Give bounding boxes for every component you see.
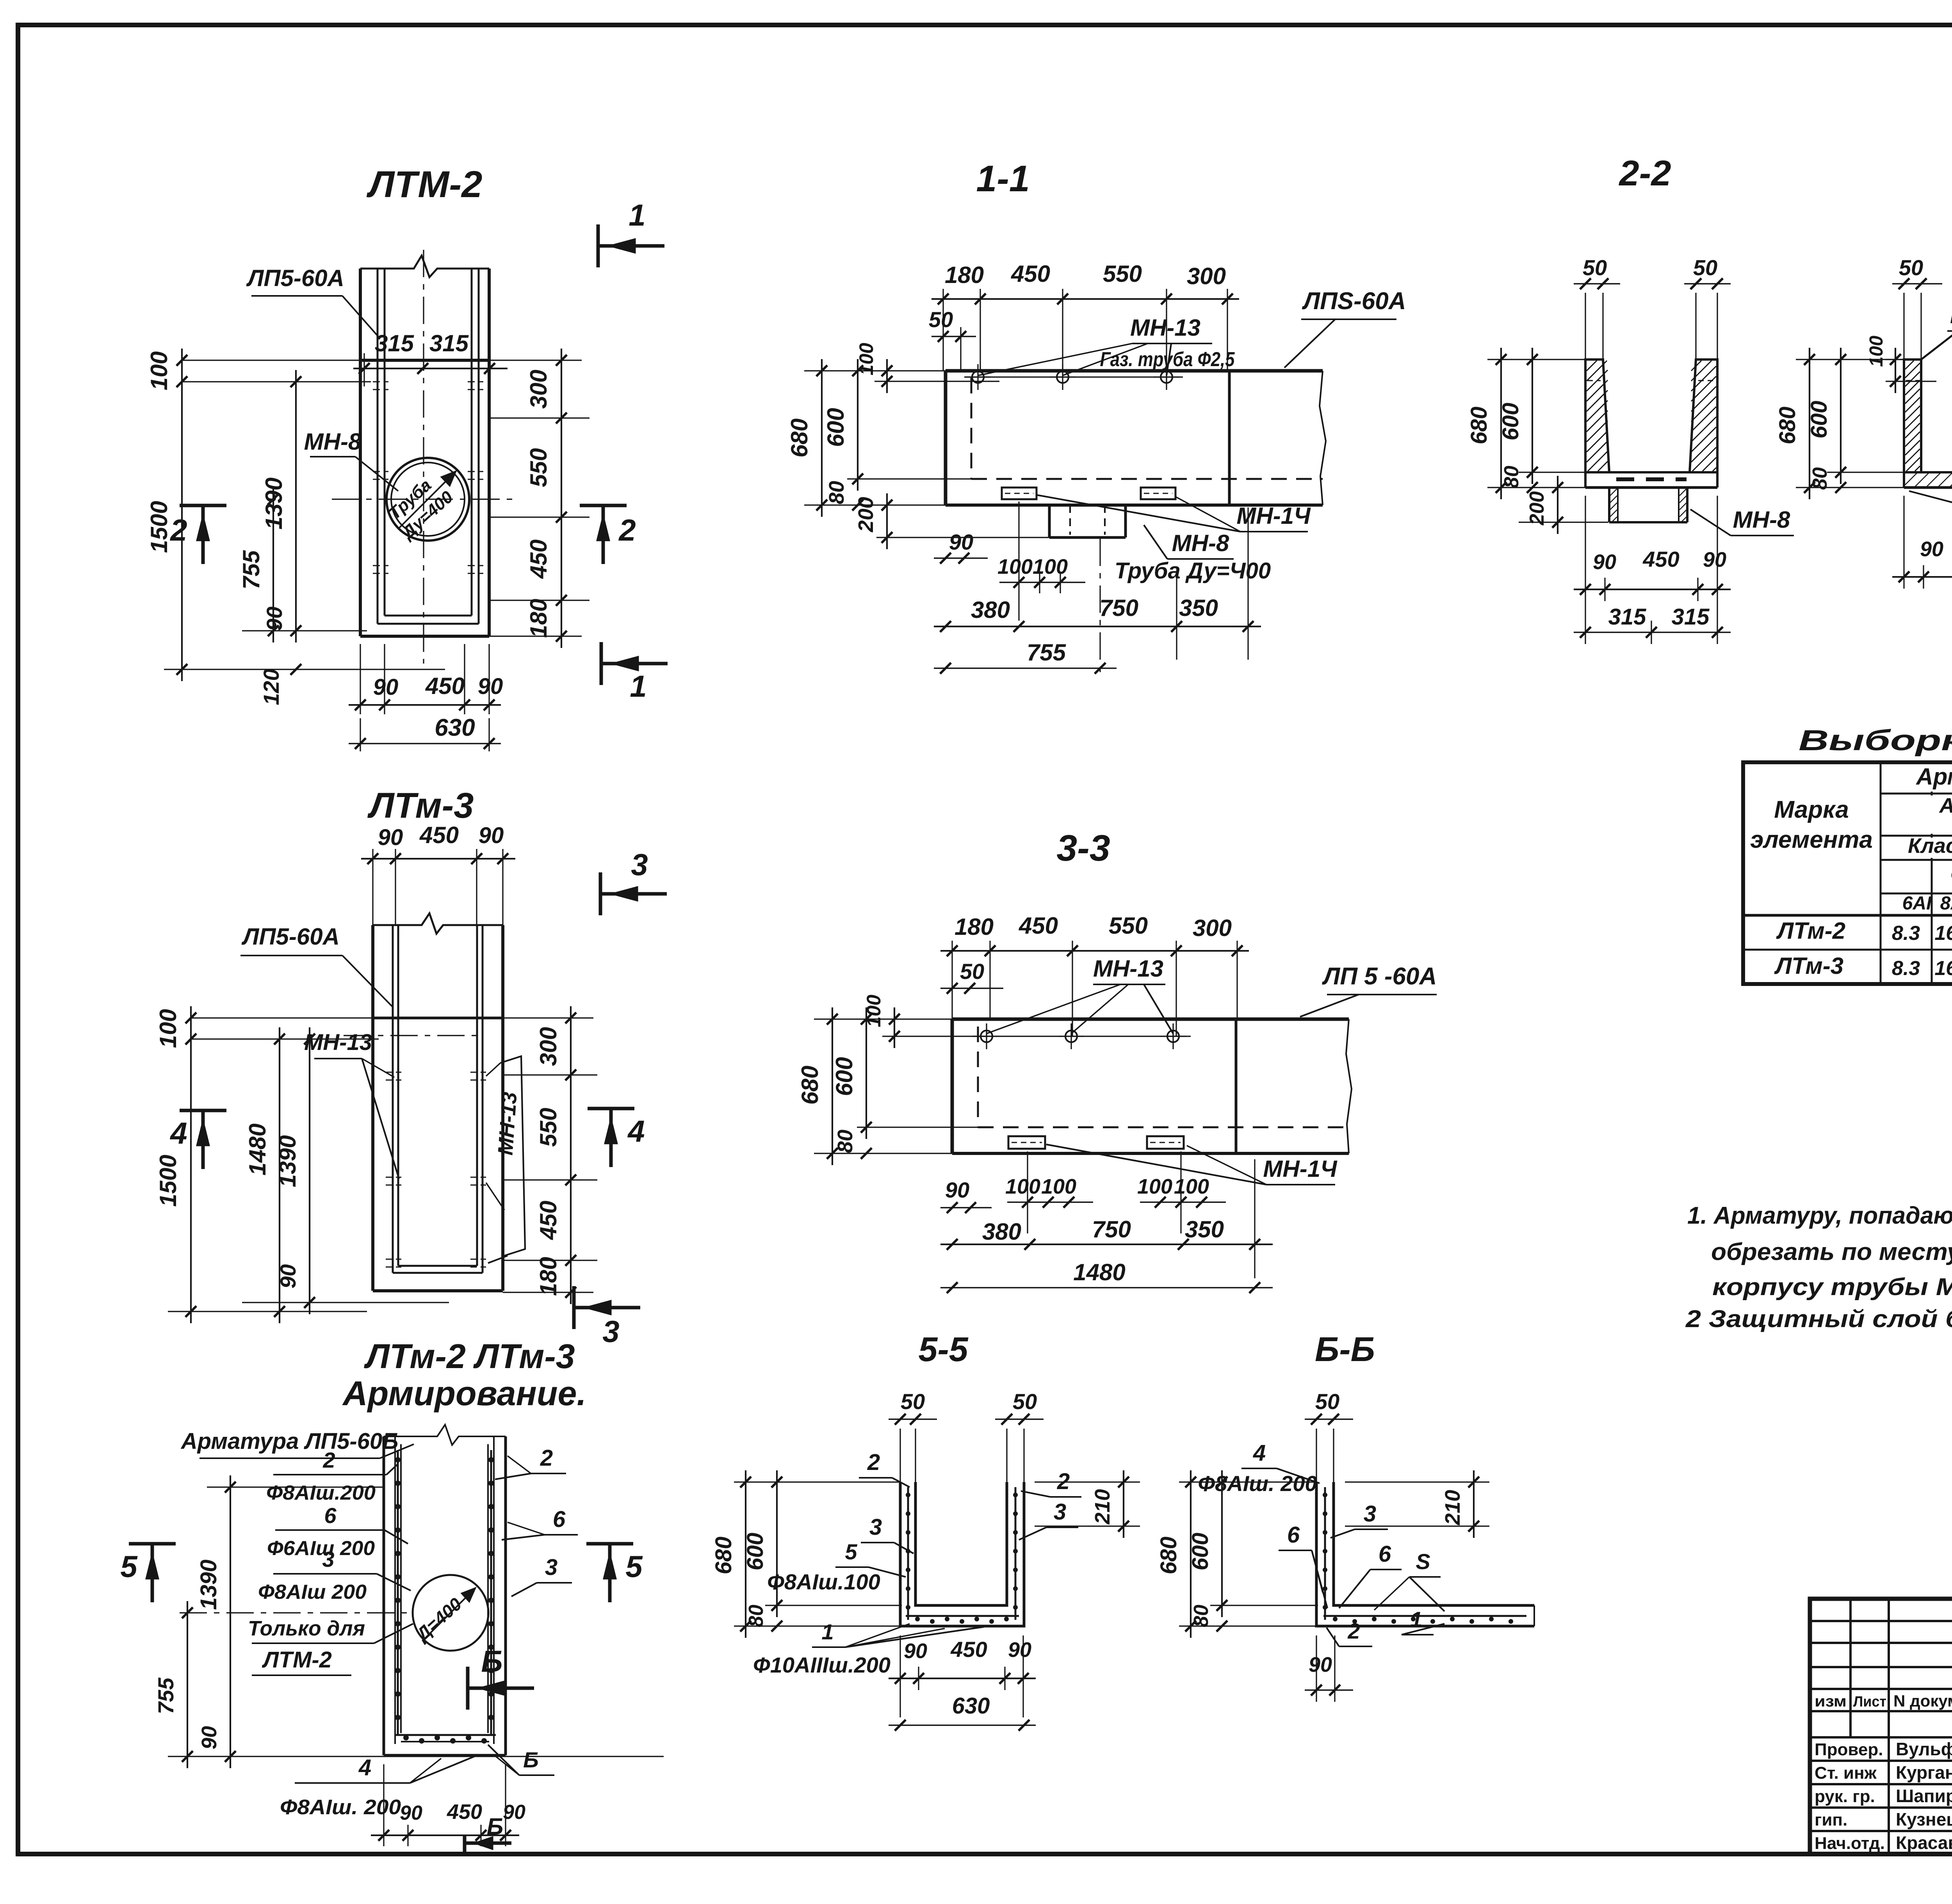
svg-text:4: 4: [358, 1755, 371, 1780]
LTM-2 centerline vertical: [423, 250, 424, 664]
svg-text:600: 600: [1806, 401, 1832, 439]
svg-text:корпусу трубы МН-8.: корпусу трубы МН-8.: [1712, 1274, 1952, 1301]
svg-text:Ф мм: Ф мм: [1950, 863, 1952, 887]
svg-text:450: 450: [419, 822, 459, 848]
svg-text:8АI: 8АI: [1940, 893, 1952, 914]
svg-text:315: 315: [1608, 604, 1647, 630]
svg-text:755: 755: [238, 550, 264, 589]
svg-text:180: 180: [535, 1257, 561, 1296]
dim 315 315 top: [353, 368, 508, 369]
svg-text:16,0: 16,0: [1934, 922, 1952, 945]
svg-text:1: 1: [630, 669, 647, 703]
svg-text:680: 680: [1466, 407, 1492, 445]
svg-text:90: 90: [904, 1639, 927, 1663]
svg-text:ЛТм-3: ЛТм-3: [367, 786, 474, 826]
svg-text:МН-8: МН-8: [1172, 530, 1229, 556]
LTM-3 channel bottom: [398, 1265, 477, 1267]
3-3 MN-14 plates: [1008, 1136, 1045, 1149]
reinforcement top break: [384, 1425, 506, 1445]
svg-text:90: 90: [400, 1802, 422, 1824]
svg-text:90: 90: [1008, 1638, 1031, 1662]
svg-text:600: 600: [823, 408, 849, 447]
5-5 outline U section: [900, 1482, 1024, 1626]
dim left 100 1500: [182, 359, 360, 361]
section mark 6 inner: [466, 1667, 470, 1710]
svg-text:Только для: Только для: [248, 1617, 365, 1640]
LTM-3 top break line: [373, 913, 503, 934]
svg-text:90: 90: [945, 1178, 969, 1202]
svg-text:315: 315: [429, 330, 469, 356]
svg-text:5-5: 5-5: [918, 1330, 968, 1368]
svg-text:100: 100: [863, 995, 885, 1027]
svg-text:1. Арматуру, попадающую в от: 1. Арматуру, попадающую в отверстие,: [1687, 1202, 1952, 1229]
svg-text:755: 755: [153, 1677, 178, 1714]
3-3 left dims: [814, 1018, 952, 1020]
section mark 5 left: [129, 1542, 176, 1546]
svg-text:600: 600: [831, 1057, 857, 1096]
svg-text:90: 90: [503, 1801, 525, 1824]
svg-text:315: 315: [375, 330, 415, 356]
section mark 4 right: [588, 1107, 634, 1110]
svg-text:Выборка стали на 1: Выборка стали на 1 элемент , кг.: [1799, 724, 1952, 756]
reinforcement wall inner lines: [394, 1436, 396, 1744]
svg-text:6: 6: [1287, 1522, 1300, 1548]
LTM-2 wall inner lines: [377, 269, 379, 624]
svg-text:315: 315: [1672, 604, 1710, 630]
section mark 5 right: [586, 1542, 633, 1546]
svg-text:гип.: гип.: [1815, 1810, 1847, 1829]
svg-text:Провер.: Провер.: [1815, 1740, 1883, 1759]
svg-text:2: 2: [618, 513, 636, 547]
pipe opening MN-8 circle: [386, 458, 469, 541]
svg-text:680: 680: [797, 1066, 823, 1105]
svg-text:2: 2: [169, 513, 187, 547]
section mark 3 bottom: [572, 1286, 576, 1329]
svg-text:Арматура ЛП5-60Б: Арматура ЛП5-60Б: [180, 1429, 399, 1454]
1-1 left dims 680 600 80 200 100: [804, 370, 946, 371]
svg-text:80: 80: [1809, 467, 1831, 490]
svg-text:50: 50: [929, 307, 953, 332]
svg-text:210: 210: [1091, 1489, 1114, 1525]
svg-text:1500: 1500: [155, 1155, 181, 1206]
svg-text:Шапиро: Шапиро: [1896, 1786, 1952, 1806]
svg-text:180: 180: [525, 599, 552, 638]
svg-text:ЛП5-60А: ЛП5-60А: [241, 924, 340, 950]
vyborka verticals: [1880, 762, 1882, 984]
svg-text:5: 5: [625, 1549, 643, 1584]
title block left columns: [1849, 1599, 1852, 1737]
svg-text:Нач.отд.: Нач.отд.: [1815, 1834, 1885, 1853]
svg-text:90: 90: [378, 825, 403, 850]
svg-text:ЛПS-60А: ЛПS-60А: [1302, 288, 1406, 315]
LTM-2 outer walls: [359, 269, 362, 636]
LTM-3 wall dash marks: [386, 1072, 401, 1073]
svg-text:5: 5: [120, 1549, 138, 1584]
svg-text:90: 90: [373, 674, 399, 700]
svg-text:350: 350: [1179, 595, 1218, 621]
dim bottom 630: [360, 718, 361, 751]
svg-text:80: 80: [1500, 466, 1523, 488]
svg-text:180: 180: [945, 262, 984, 288]
svg-text:Б: Б: [481, 1644, 502, 1678]
svg-text:3: 3: [545, 1555, 557, 1580]
svg-text:100: 100: [1137, 1175, 1172, 1198]
svg-text:1: 1: [629, 198, 645, 232]
svg-text:ЛТм-2: ЛТм-2: [1776, 918, 1845, 944]
svg-text:100: 100: [855, 343, 877, 375]
LTM-2 top break line: [360, 256, 489, 277]
4-4 bottom slab: [1904, 471, 1952, 473]
reinforcement outer walls: [383, 1436, 385, 1755]
svg-text:ЛТМ-2: ЛТМ-2: [262, 1647, 332, 1673]
LTM-3 outer walls: [371, 925, 374, 1291]
LTM-3 slab edge line: [373, 1017, 503, 1020]
dim left 1390 755 90 120: [242, 630, 367, 631]
svg-text:100: 100: [146, 351, 172, 390]
svg-text:2: 2: [322, 1448, 335, 1472]
svg-text:600: 600: [1188, 1533, 1213, 1571]
section mark 2 left: [180, 504, 226, 507]
svg-text:80: 80: [825, 481, 848, 504]
1-1 MN-8 pipe below: [1048, 505, 1051, 537]
svg-text:6: 6: [1379, 1541, 1391, 1567]
svg-text:680: 680: [1775, 407, 1800, 445]
svg-text:100: 100: [1033, 555, 1068, 578]
2-2 right wall: [1690, 359, 1717, 472]
reinforcement left dims 1390 755 90: [207, 1486, 384, 1488]
svg-text:300: 300: [1193, 915, 1232, 941]
5-5 left dims 680 600 80: [734, 1481, 900, 1482]
svg-text:450: 450: [1019, 913, 1058, 939]
svg-text:16,0: 16,0: [1934, 957, 1952, 980]
svg-text:450: 450: [425, 673, 465, 699]
svg-text:50: 50: [1013, 1389, 1037, 1414]
svg-text:750: 750: [1092, 1216, 1131, 1242]
svg-text:210: 210: [1441, 1490, 1464, 1525]
6-6 left dims 680 600 80: [1179, 1481, 1316, 1482]
svg-text:S: S: [1416, 1549, 1430, 1574]
svg-text:элемента: элемента: [1750, 826, 1873, 853]
LTM-3 centerline: [344, 1035, 480, 1036]
svg-text:680: 680: [1156, 1537, 1181, 1575]
svg-text:4: 4: [169, 1116, 187, 1150]
svg-text:80: 80: [745, 1605, 768, 1627]
svg-text:80: 80: [1190, 1605, 1213, 1627]
svg-text:обрезать по месту и привари: обрезать по месту и приварить к: [1711, 1238, 1952, 1265]
2-2 left wall: [1585, 359, 1609, 472]
opening circle D=400: [413, 1575, 488, 1651]
1-1 outline: [946, 369, 1323, 373]
svg-text:5: 5: [845, 1539, 857, 1564]
svg-text:50: 50: [901, 1389, 925, 1414]
svg-text:Ф8АIш. 200: Ф8АIш. 200: [280, 1795, 401, 1819]
6-6 outline L section: [1316, 1482, 1534, 1626]
section mark 1 top: [597, 224, 600, 267]
svg-text:Вульф: Вульф: [1896, 1739, 1952, 1759]
5-5 dim 210: [1035, 1481, 1140, 1482]
svg-text:Лист: Лист: [1853, 1694, 1886, 1710]
svg-text:450: 450: [1642, 547, 1679, 571]
4-4 dim 100: [1886, 359, 1905, 360]
LTM-3 wall inner lines: [392, 925, 394, 1273]
svg-text:120: 120: [259, 669, 283, 705]
svg-text:450: 450: [525, 539, 552, 579]
svg-text:Армирование.: Армирование.: [342, 1374, 586, 1413]
section mark 4 left: [180, 1109, 226, 1112]
svg-text:50: 50: [1583, 255, 1607, 280]
svg-text:90: 90: [1703, 548, 1726, 571]
svg-text:450: 450: [447, 1800, 482, 1824]
svg-text:Ф8АIш.200: Ф8АIш.200: [266, 1482, 376, 1504]
svg-text:90: 90: [262, 607, 287, 631]
svg-text:2 Защитный слой бетона 20: 2 Защитный слой бетона 20мм.: [1685, 1306, 1952, 1333]
svg-text:600: 600: [743, 1533, 768, 1571]
svg-text:200: 200: [854, 497, 878, 532]
1-1 hidden lines: [971, 378, 972, 479]
svg-text:100: 100: [997, 555, 1033, 578]
svg-text:755: 755: [1027, 639, 1067, 666]
svg-text:100: 100: [1866, 336, 1887, 367]
svg-text:Б: Б: [487, 1813, 503, 1840]
rebar bottom bars: [394, 1734, 496, 1736]
svg-text:1480: 1480: [1073, 1259, 1125, 1285]
5-5 rebar bars: [907, 1487, 909, 1620]
rebar vertical bars with studs: [397, 1450, 399, 1735]
svg-text:Ст. инж: Ст. инж: [1815, 1763, 1877, 1783]
svg-text:ЛП 5 -60А: ЛП 5 -60А: [1322, 963, 1437, 990]
svg-text:Ф8АIш. 200: Ф8АIш. 200: [1198, 1471, 1317, 1496]
svg-text:МН-13: МН-13: [1093, 956, 1163, 982]
svg-text:450: 450: [1011, 261, 1050, 287]
4-4 MN-13 trapezoid: [1921, 333, 1952, 359]
title block left rows: [1810, 1620, 1952, 1622]
svg-text:100: 100: [1174, 1175, 1209, 1198]
svg-text:550: 550: [1103, 261, 1142, 287]
label MN-13 right callout: [500, 1056, 525, 1256]
svg-text:90: 90: [1309, 1653, 1332, 1676]
svg-text:3-3: 3-3: [1056, 827, 1110, 869]
svg-text:630: 630: [952, 1693, 990, 1719]
svg-text:Класс АI: Класс АI: [1908, 834, 1952, 858]
svg-text:МН-8: МН-8: [1733, 507, 1790, 533]
svg-text:Б: Б: [523, 1747, 539, 1772]
svg-text:ЛТМ-2: ЛТМ-2: [366, 164, 482, 205]
svg-text:3: 3: [1364, 1501, 1376, 1527]
vyborka horizontals: [1881, 793, 1952, 795]
LTM-2 channel bottom: [385, 615, 472, 617]
svg-text:Марка: Марка: [1774, 796, 1849, 823]
svg-text:90: 90: [198, 1726, 221, 1749]
svg-text:1: 1: [821, 1619, 834, 1644]
svg-text:100: 100: [1005, 1175, 1040, 1198]
svg-text:4: 4: [627, 1114, 645, 1148]
svg-text:изм: изм: [1815, 1693, 1847, 1710]
svg-text:6АI: 6АI: [1902, 893, 1932, 914]
svg-text:МН-8: МН-8: [304, 429, 362, 455]
svg-text:Ф8АIш.100: Ф8АIш.100: [767, 1569, 880, 1594]
svg-text:6: 6: [324, 1503, 337, 1528]
svg-text:3: 3: [1054, 1499, 1066, 1525]
svg-text:300: 300: [525, 370, 552, 409]
svg-text:N докум.: N докум.: [1893, 1692, 1952, 1710]
svg-text:3: 3: [869, 1514, 882, 1540]
svg-text:Газ. труба Ф2,5: Газ. труба Ф2,5: [1100, 348, 1235, 371]
2-2 left dims 680 600 80 200: [1487, 359, 1585, 360]
svg-text:300: 300: [1187, 263, 1226, 289]
svg-text:1: 1: [1410, 1607, 1422, 1632]
svg-text:6: 6: [553, 1507, 566, 1532]
svg-text:Арматурная сталь: Арматурная сталь: [1939, 794, 1952, 817]
svg-text:1500: 1500: [146, 501, 172, 553]
svg-text:4: 4: [1253, 1440, 1266, 1466]
3-3 outline: [952, 1018, 1349, 1021]
svg-text:200: 200: [1526, 491, 1548, 526]
svg-text:2: 2: [540, 1445, 553, 1471]
svg-text:2-2: 2-2: [1619, 153, 1671, 193]
svg-text:100: 100: [1041, 1175, 1076, 1198]
4-4 left dims 680 600 80: [1796, 359, 1904, 360]
svg-text:МН-13: МН-13: [1130, 315, 1200, 341]
svg-text:1480: 1480: [244, 1123, 271, 1175]
svg-text:2: 2: [1347, 1619, 1360, 1643]
svg-text:50: 50: [960, 959, 984, 984]
LTM-3 dim left 100 1500: [191, 1017, 373, 1018]
svg-text:50: 50: [1899, 255, 1923, 280]
section mark 2 right: [580, 504, 627, 507]
svg-text:50: 50: [1693, 255, 1717, 280]
3-3 hidden lines: [977, 1027, 979, 1127]
svg-text:90: 90: [1920, 537, 1943, 561]
svg-text:2: 2: [867, 1450, 880, 1475]
svg-text:300: 300: [535, 1027, 561, 1066]
svg-text:630: 630: [435, 714, 475, 741]
svg-text:680: 680: [786, 418, 812, 457]
svg-text:90: 90: [478, 674, 503, 699]
svg-text:МН-13: МН-13: [1950, 302, 1952, 328]
svg-text:180: 180: [955, 914, 994, 940]
svg-text:Курганова: Курганова: [1896, 1762, 1952, 1783]
svg-text:8.3: 8.3: [1892, 957, 1920, 980]
svg-text:Кузнецов: Кузнецов: [1896, 1809, 1952, 1829]
svg-text:380: 380: [982, 1219, 1021, 1245]
svg-text:ЛТм-3: ЛТм-3: [1774, 953, 1843, 979]
2-2 MN-8 pipe below: [1608, 488, 1610, 522]
svg-text:3: 3: [602, 1314, 619, 1349]
4-4 wall top dashes: [1906, 380, 1919, 381]
svg-text:600: 600: [1498, 403, 1523, 441]
2-2 hidden pipe line: [1616, 477, 1687, 481]
svg-text:50: 50: [1315, 1389, 1339, 1414]
dim bottom 90 450 90: [360, 644, 361, 714]
svg-text:8.3: 8.3: [1892, 922, 1920, 945]
LTM-2 slab edge line: [360, 359, 489, 362]
1-1 mounting loops: [972, 371, 984, 383]
svg-text:90: 90: [1593, 550, 1616, 574]
2-2 wall top dashes: [1587, 380, 1601, 381]
svg-text:Труба Ду=Ч00: Труба Ду=Ч00: [1115, 558, 1271, 584]
1-1 right break line: [1320, 371, 1326, 505]
svg-text:1-1: 1-1: [976, 158, 1029, 199]
svg-text:550: 550: [525, 448, 552, 487]
svg-text:90: 90: [949, 530, 973, 554]
svg-text:550: 550: [535, 1108, 561, 1147]
svg-text:Арматурные изделия: Арматурные изделия: [1915, 763, 1952, 790]
svg-text:МН-1Ч: МН-1Ч: [1263, 1156, 1338, 1182]
vyborka outer frame: [1743, 762, 1952, 984]
svg-text:Красавин: Красавин: [1896, 1833, 1952, 1853]
section mark 6 bottom: [463, 1835, 467, 1852]
svg-text:90: 90: [479, 823, 504, 848]
section mark 3 top: [599, 872, 602, 915]
svg-text:Ф6АIш 200: Ф6АIш 200: [267, 1537, 375, 1560]
svg-text:90: 90: [276, 1264, 300, 1288]
svg-text:рук. гр.: рук. гр.: [1815, 1787, 1875, 1806]
svg-text:450: 450: [535, 1201, 561, 1240]
title block outer: [1810, 1599, 1952, 1854]
svg-text:450: 450: [950, 1637, 987, 1662]
svg-text:ЛП5-60А: ЛП5-60А: [246, 265, 344, 291]
1-1 MN-14 plates: [1002, 488, 1037, 499]
dim right chain 300 550 450 180: [489, 359, 582, 361]
pipe diagonal arrow: [398, 471, 456, 529]
3-3 mounting loops: [981, 1030, 992, 1042]
svg-text:350: 350: [1185, 1216, 1224, 1242]
svg-text:750: 750: [1099, 595, 1138, 621]
svg-text:Ф10АIIIш.200: Ф10АIIIш.200: [753, 1653, 891, 1677]
svg-text:550: 550: [1109, 913, 1148, 939]
svg-text:МН-13: МН-13: [493, 1091, 521, 1156]
LTM-3 dim left 1480 1390 90: [242, 1302, 449, 1303]
4-4 left wall: [1904, 359, 1921, 472]
svg-text:100: 100: [155, 1009, 181, 1048]
svg-text:3: 3: [322, 1547, 334, 1571]
svg-text:ЛТм-2 ЛТм-3: ЛТм-2 ЛТм-3: [363, 1337, 575, 1376]
svg-text:Ф8АIш 200: Ф8АIш 200: [258, 1581, 367, 1603]
svg-text:3: 3: [631, 847, 648, 882]
LTM-2 wall dash marks: [373, 381, 388, 383]
svg-text:80: 80: [834, 1130, 857, 1153]
svg-text:1390: 1390: [196, 1559, 221, 1610]
svg-text:1390: 1390: [274, 1135, 301, 1187]
svg-text:680: 680: [711, 1537, 736, 1575]
2-2 bottom slab: [1585, 471, 1717, 473]
LTM-3 dim right chain: [503, 1017, 593, 1018]
6-6 rebar: [1324, 1487, 1326, 1620]
section mark 1 bottom: [600, 642, 603, 685]
svg-text:Б-Б: Б-Б: [1315, 1330, 1375, 1368]
svg-text:380: 380: [971, 597, 1010, 623]
LTM-2 centerline horizontal: [332, 498, 515, 500]
6-6 dim 210: [1345, 1481, 1489, 1482]
